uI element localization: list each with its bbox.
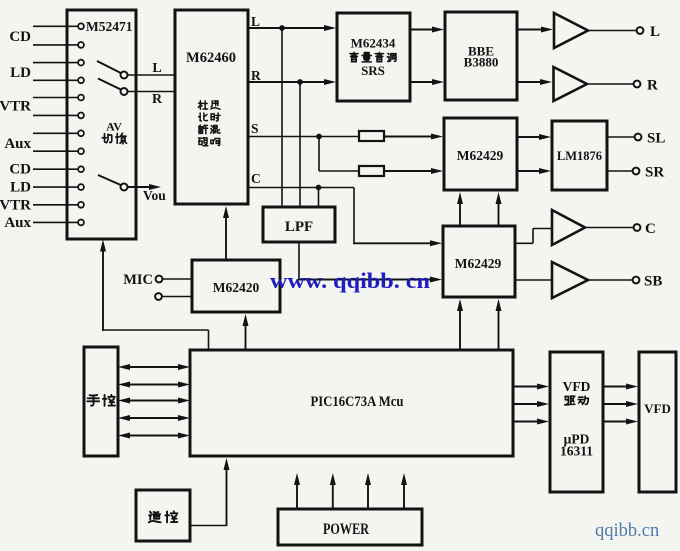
svg-text:16311: 16311	[560, 444, 593, 459]
svg-text:M52471: M52471	[86, 19, 133, 34]
power arrow 3	[367, 482, 369, 509]
block VFD display box	[639, 352, 676, 492]
svg-text:LM1876: LM1876	[557, 149, 602, 163]
wire amp R to terminal	[587, 83, 633, 85]
IC U6 LM1876 power amp box	[552, 121, 607, 190]
svg-text:M62420: M62420	[213, 280, 260, 295]
label 手控	[87, 395, 99, 406]
label 延时混响 column	[211, 101, 220, 109]
wire M62429 to LM1876 (SR)	[517, 170, 542, 172]
wire M62429 lower to upper (2)	[498, 201, 500, 226]
svg-text:VFD: VFD	[644, 401, 671, 416]
wire SB out to amp	[515, 279, 552, 281]
IC U4 BBE B3880 box	[445, 12, 517, 100]
input terminal pin 2 with wire	[33, 44, 78, 46]
svg-text:SL: SL	[647, 131, 665, 147]
wire L: selector to M62460	[127, 74, 175, 76]
svg-text:L: L	[152, 61, 161, 76]
wire VFD driver to VFD 1	[603, 386, 629, 388]
amplifier A1 (L)	[554, 13, 588, 48]
output terminal SR	[633, 168, 640, 175]
svg-text:POWER: POWER	[323, 521, 369, 538]
label 驱动	[565, 396, 575, 405]
svg-text:C: C	[645, 221, 656, 237]
switch contact Vou	[121, 184, 128, 191]
svg-text:qqibb.cn: qqibb.cn	[595, 521, 659, 541]
svg-text:Aux: Aux	[4, 215, 31, 231]
output terminal R	[634, 81, 641, 88]
output terminal C	[634, 224, 641, 231]
input terminal pin 5 with wire	[33, 97, 78, 99]
svg-text:LPF: LPF	[285, 219, 313, 235]
svg-text:LD: LD	[10, 65, 31, 81]
input terminal pin 3 with wire	[33, 62, 78, 64]
wire C out to amp	[515, 242, 533, 244]
IC U11 VFD driver uPD16311 box	[550, 352, 603, 492]
wire PIC to VFD driver 1	[513, 386, 540, 388]
wire S branch to filter F2	[319, 170, 359, 172]
wire BBE L to amp	[517, 29, 544, 31]
junction dot C	[316, 185, 322, 191]
mic terminal 2 with wire	[155, 293, 162, 300]
input terminal pin 6 with wire	[33, 114, 78, 116]
output terminal SB	[633, 277, 640, 284]
wire PIC to M62420 (arrow up)	[245, 323, 247, 350]
wire M62434 R to BBE	[410, 81, 435, 83]
IC U10 PIC16C73A MCU box	[190, 350, 513, 456]
svg-text:M62434: M62434	[351, 36, 396, 51]
amplifier A4 (SB)	[552, 262, 588, 298]
wire PIC to VFD driver 3	[513, 421, 540, 423]
input terminal pin 8 with wire	[33, 150, 78, 152]
wire C to M62429 lower	[353, 188, 355, 244]
IC U2 M62460 surround decoder box	[175, 10, 248, 204]
label 音量音调	[350, 52, 358, 61]
svg-text:L: L	[251, 14, 260, 29]
svg-text:R: R	[152, 92, 163, 107]
output terminal L	[637, 27, 644, 34]
svg-text:Aux: Aux	[4, 136, 31, 152]
svg-text:CD: CD	[9, 29, 31, 45]
wire M62429 to LM1876 (SL)	[517, 136, 542, 138]
svg-text:M62429: M62429	[457, 148, 504, 163]
wire LM1876 to SR terminal	[607, 170, 632, 172]
svg-text:C: C	[251, 171, 261, 186]
svg-text:PIC16C73A Mcu: PIC16C73A Mcu	[311, 394, 404, 410]
wire VFD driver to VFD 3	[603, 421, 629, 423]
block POWER supply	[278, 509, 422, 545]
svg-text:SB: SB	[644, 274, 662, 290]
wire BBE R to amp	[517, 81, 543, 83]
IC U8 M62429 (C/SB att.) box	[443, 226, 515, 297]
wire S branch down	[318, 137, 320, 172]
svg-text:L: L	[650, 24, 660, 40]
svg-text:CD: CD	[9, 162, 31, 178]
svg-text:B3880: B3880	[464, 55, 499, 70]
wire F2 to M62429 upper	[384, 170, 434, 172]
svg-text:S: S	[251, 121, 259, 136]
svg-text:MIC: MIC	[123, 272, 153, 288]
wire 遥控 to PIC	[190, 525, 227, 527]
svg-text:LD: LD	[10, 180, 31, 196]
power arrow 4	[403, 482, 405, 509]
wire M62434 L to BBE	[410, 29, 435, 31]
wire selector control from PIC	[102, 249, 104, 332]
power arrow 2	[332, 482, 334, 509]
svg-text:SRS: SRS	[361, 63, 385, 78]
wire S: M62460 to filter	[248, 136, 359, 138]
svg-text:Vou: Vou	[143, 188, 166, 203]
amplifier A3 (C)	[552, 210, 585, 245]
IC U9 M62420 box	[192, 260, 280, 312]
input terminal pin 10 with wire	[33, 186, 78, 188]
junction dot R	[297, 79, 303, 85]
wire LPF out down-right to M62429 lower	[298, 242, 300, 280]
mic terminal 1 with wire	[156, 276, 163, 283]
svg-text:R: R	[647, 78, 658, 94]
wire L down to LPF	[281, 28, 283, 208]
junction dot L	[279, 25, 285, 31]
power arrow 1	[296, 482, 298, 509]
wire PIC to M62429 lower (1)	[459, 308, 461, 350]
IC U3 M62434 volume/tone SRS box	[337, 13, 410, 101]
switch contact L	[121, 72, 128, 79]
input terminal pin 11 with wire	[33, 204, 78, 206]
wire R: M62460 to M62434	[248, 81, 327, 83]
filter F1 box	[359, 131, 384, 141]
wire Vou with arrow	[127, 186, 152, 188]
label 杜比解码 column	[198, 101, 207, 110]
IC U5 M62429 (surround att.) box	[444, 118, 517, 190]
amplifier A2 (R)	[554, 67, 588, 101]
wire M62429 lower to upper (1)	[459, 201, 461, 226]
svg-text:M62429: M62429	[455, 256, 502, 271]
input terminal pin 4 with wire	[33, 79, 78, 81]
filter U7 LPF box	[263, 207, 335, 242]
filter F2 box	[359, 166, 384, 176]
wire M62420 to M62460 (arrow up)	[225, 215, 227, 260]
wire amp C to terminal	[585, 227, 633, 229]
wire R: selector to M62460	[127, 91, 175, 93]
wire C branch down to LPF	[318, 188, 320, 209]
IC U1 AV selector M52471 box	[67, 10, 136, 239]
label 遥控	[149, 512, 161, 523]
input terminal pin 7 with wire	[33, 132, 78, 134]
switch contact R	[121, 88, 128, 95]
bus wire PIC-手控 4	[127, 417, 181, 419]
bus wire PIC-手控 2	[127, 384, 181, 386]
wire R down to LPF	[299, 82, 301, 208]
input terminal pin 9 with wire	[33, 168, 78, 170]
wire VFD driver to VFD 2	[603, 403, 629, 405]
bus wire PIC-手控 5	[127, 435, 181, 437]
svg-text:www. qqibb. cn: www. qqibb. cn	[270, 268, 430, 293]
bus wire PIC-手控 1	[127, 366, 181, 368]
svg-text:AV: AV	[106, 120, 122, 134]
wire LM1876 to SL terminal	[607, 136, 634, 138]
svg-text:SR: SR	[645, 165, 664, 181]
svg-text:VFD: VFD	[563, 379, 591, 394]
svg-text:VTR: VTR	[0, 197, 31, 213]
bus wire PIC-手控 3	[127, 400, 181, 402]
block 手控 (manual keys)	[84, 347, 118, 456]
wire PIC to VFD driver 2	[513, 403, 540, 405]
wire L: M62460 to M62434	[248, 27, 327, 29]
wire C: M62460 rightwards	[248, 187, 354, 189]
block 遥控 (remote)	[136, 490, 190, 541]
wire amp SB to terminal	[588, 279, 632, 281]
wire F1 to M62429 upper	[384, 136, 434, 138]
wire PIC to M62429 lower (2)	[498, 308, 500, 350]
junction dot S	[316, 134, 322, 140]
output terminal SL	[635, 134, 642, 141]
input terminal pin 12 with wire	[33, 221, 78, 223]
input terminal pin 1 with wire	[33, 25, 78, 27]
wire amp L to terminal	[588, 30, 636, 32]
svg-text:M62460: M62460	[186, 50, 236, 66]
svg-text:VTR: VTR	[0, 99, 31, 115]
svg-text:R: R	[251, 68, 261, 83]
